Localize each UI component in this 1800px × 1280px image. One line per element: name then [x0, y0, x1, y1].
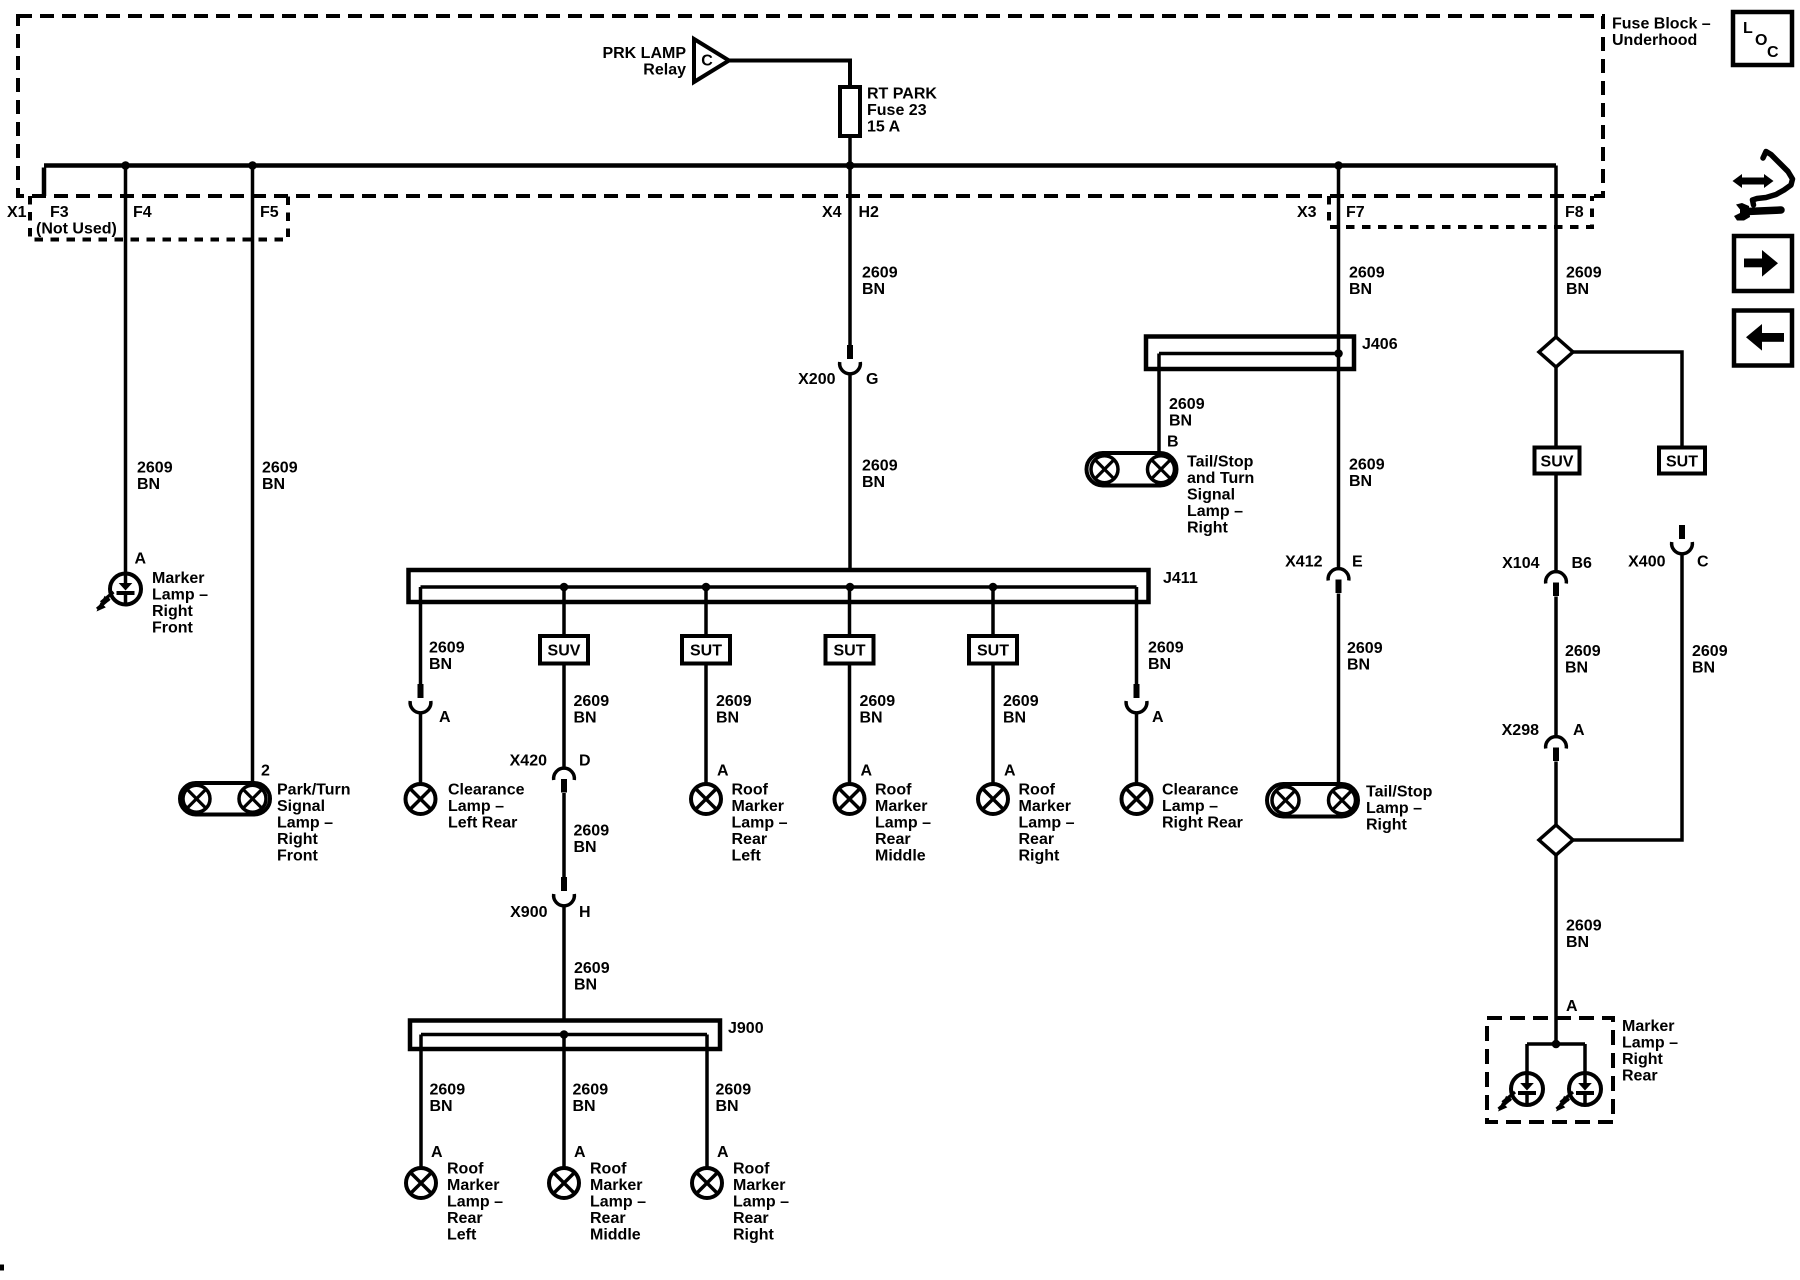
- svg-text:2609: 2609: [1347, 640, 1383, 657]
- svg-text:Fuse 23: Fuse 23: [867, 102, 927, 119]
- svg-text:Rear: Rear: [875, 831, 911, 848]
- wire label 2609 BN (F7 lower): [1347, 640, 1383, 674]
- svg-text:Lamp –: Lamp –: [875, 815, 931, 832]
- svg-text:X104: X104: [1502, 555, 1539, 572]
- splice pack J406: [1146, 337, 1354, 370]
- junction J411-SUT1: [702, 583, 711, 592]
- wire diamond to marker lamp RR: [1554, 855, 1558, 1044]
- svg-text:J900: J900: [728, 1020, 764, 1037]
- svg-text:A: A: [861, 763, 873, 780]
- svg-text:F3: F3: [50, 204, 69, 221]
- svg-text:Marker: Marker: [732, 798, 784, 815]
- svg-text:Lamp –: Lamp –: [448, 798, 504, 815]
- svg-text:PRK LAMP: PRK LAMP: [602, 45, 686, 62]
- fuse RT PARK Fuse 23 15A: [840, 86, 937, 137]
- junction J900 feed: [560, 1030, 569, 1039]
- svg-text:X400: X400: [1628, 554, 1665, 571]
- svg-text:Relay: Relay: [643, 62, 686, 79]
- wire J411 to SUT box (right): [991, 587, 995, 636]
- left arrow box: [1734, 311, 1792, 366]
- wire J411 right drop: [1135, 587, 1139, 684]
- wire J406 left drop: [1157, 354, 1161, 454]
- wire J411 to SUT box (left): [704, 587, 708, 636]
- svg-text:2609: 2609: [862, 265, 898, 282]
- wire label 2609 BN (X104 lower): [1565, 643, 1601, 677]
- connector X200 pin G: [840, 345, 861, 374]
- option box SUT (middle): [826, 636, 874, 664]
- svg-text:Left Rear: Left Rear: [448, 815, 517, 832]
- svg-text:and Turn: and Turn: [1187, 470, 1254, 487]
- svg-text:Lamp –: Lamp –: [1019, 815, 1075, 832]
- svg-text:X4: X4: [822, 204, 842, 221]
- wire label 2609 BN (F7 upper): [1349, 265, 1385, 299]
- svg-text:2609: 2609: [262, 460, 298, 477]
- option box SUT (left): [682, 636, 730, 664]
- wire F4 branch: [124, 166, 128, 573]
- wire SUV to X104: [1554, 474, 1558, 571]
- fuse block label: [1612, 16, 1711, 50]
- tail/stop lamp right: [1267, 784, 1358, 817]
- label marker lamp right front: [152, 570, 208, 637]
- svg-text:2609: 2609: [1566, 918, 1602, 935]
- svg-text:BN: BN: [716, 710, 739, 727]
- svg-text:BN: BN: [262, 476, 285, 493]
- svg-text:Underhood: Underhood: [1612, 32, 1697, 49]
- svg-text:BN: BN: [574, 710, 597, 727]
- svg-text:Left: Left: [447, 1227, 477, 1244]
- svg-text:BN: BN: [1565, 660, 1588, 677]
- connector X420 pin D: [554, 768, 575, 792]
- junction F4: [121, 161, 130, 170]
- svg-text:Middle: Middle: [875, 848, 926, 865]
- label clearance lamp left rear: [448, 782, 525, 832]
- svg-text:Marker: Marker: [733, 1177, 785, 1194]
- svg-text:A: A: [717, 1144, 729, 1161]
- svg-text:2609: 2609: [716, 1082, 752, 1099]
- roof marker lamp rear right: [978, 784, 1008, 814]
- marker lamp RR LED left: [1498, 1073, 1543, 1112]
- wire X420 to X900: [562, 793, 566, 877]
- svg-text:Front: Front: [277, 848, 319, 865]
- wire X900 to J900: [562, 907, 566, 1021]
- svg-text:Clearance: Clearance: [448, 782, 525, 799]
- svg-text:(Not Used): (Not Used): [36, 221, 117, 238]
- svg-text:X298: X298: [1502, 722, 1539, 739]
- svg-text:Roof: Roof: [1019, 782, 1056, 799]
- svg-text:Roof: Roof: [447, 1161, 484, 1178]
- junction J411-SUV: [560, 583, 569, 592]
- svg-text:Front: Front: [152, 620, 194, 637]
- connector X412 pin E: [1328, 569, 1349, 593]
- svg-text:A: A: [431, 1144, 443, 1161]
- svg-text:BN: BN: [862, 281, 885, 298]
- wire F7 branch: [1337, 166, 1341, 568]
- svg-text:BN: BN: [430, 1098, 453, 1115]
- fuse block underhood dashed border: [18, 16, 1603, 196]
- svg-text:Rear: Rear: [733, 1210, 769, 1227]
- svg-text:2609: 2609: [1169, 396, 1205, 413]
- svg-text:2: 2: [261, 763, 270, 780]
- page mark: [0, 1265, 4, 1271]
- wire X412 to tail lamp: [1337, 594, 1341, 785]
- wire label 2609 BN (X420 lower): [574, 823, 610, 857]
- svg-text:X412: X412: [1285, 554, 1322, 571]
- svg-text:BN: BN: [574, 977, 597, 994]
- svg-text:Signal: Signal: [277, 798, 325, 815]
- wire label 2609 BN (F8 lower): [1566, 918, 1602, 952]
- svg-text:2609: 2609: [862, 458, 898, 475]
- svg-text:Lamp –: Lamp –: [733, 1194, 789, 1211]
- svg-text:RT PARK: RT PARK: [867, 86, 937, 103]
- svg-text:Fuse Block –: Fuse Block –: [1612, 16, 1711, 33]
- svg-text:L: L: [1743, 20, 1753, 37]
- svg-text:A: A: [1152, 709, 1164, 726]
- svg-text:Roof: Roof: [733, 1161, 770, 1178]
- svg-text:2609: 2609: [1003, 693, 1039, 710]
- wire J900 drop Right: [705, 1035, 709, 1169]
- svg-text:SUV: SUV: [548, 643, 581, 660]
- svg-text:Marker: Marker: [1019, 798, 1071, 815]
- svg-text:Lamp –: Lamp –: [1187, 503, 1243, 520]
- junction J411 feed: [846, 583, 855, 592]
- roof marker lamp rear middle: [549, 1168, 579, 1198]
- svg-text:Signal: Signal: [1187, 487, 1235, 504]
- option box SUT (right): [1659, 448, 1705, 474]
- svg-text:B6: B6: [1572, 555, 1593, 572]
- svg-text:C: C: [701, 53, 713, 70]
- svg-text:BN: BN: [1169, 413, 1192, 430]
- svg-text:Rear: Rear: [447, 1210, 483, 1227]
- svg-text:Marker: Marker: [875, 798, 927, 815]
- svg-text:X1: X1: [7, 204, 27, 221]
- label roof marker lamp rear left: [732, 782, 788, 865]
- tail/stop and turn signal lamp right: [1087, 453, 1177, 486]
- svg-text:Lamp –: Lamp –: [1622, 1035, 1678, 1052]
- svg-text:2609: 2609: [716, 693, 752, 710]
- svg-text:2609: 2609: [137, 460, 173, 477]
- svg-text:F7: F7: [1346, 204, 1365, 221]
- svg-text:Middle: Middle: [590, 1227, 641, 1244]
- relay PRK LAMP output C: [602, 39, 729, 82]
- svg-text:Right: Right: [152, 603, 194, 620]
- junction F5: [248, 161, 257, 170]
- junction X4: [846, 161, 855, 170]
- svg-text:Lamp –: Lamp –: [732, 815, 788, 832]
- inline connector pin A (left rear): [410, 684, 431, 713]
- junction F7: [1334, 161, 1343, 170]
- svg-text:B: B: [1167, 434, 1179, 451]
- svg-text:Clearance: Clearance: [1162, 782, 1239, 799]
- wire X104 to X298: [1554, 597, 1558, 736]
- svg-text:Marker: Marker: [590, 1177, 642, 1194]
- svg-text:Lamp –: Lamp –: [590, 1194, 646, 1211]
- svg-text:BN: BN: [1692, 660, 1715, 677]
- svg-text:Roof: Roof: [875, 782, 912, 799]
- svg-text:G: G: [866, 371, 878, 388]
- clearance lamp left rear: [406, 784, 436, 814]
- svg-text:Right Rear: Right Rear: [1162, 815, 1243, 832]
- wire to clearance lamp LR: [419, 714, 423, 784]
- marker lamp right front (LED): [97, 574, 142, 612]
- label roof marker lamp rear left: [447, 1161, 503, 1244]
- svg-text:X200: X200: [798, 371, 835, 388]
- wire label 2609 BN (X200 lower): [862, 458, 898, 492]
- wire label 2609 BN (F4): [137, 460, 173, 494]
- svg-text:E: E: [1352, 554, 1363, 571]
- svg-text:SUT: SUT: [977, 643, 1009, 660]
- label park/turn signal lamp right front: [277, 782, 351, 865]
- connector X1 dotted box: [30, 196, 288, 240]
- option box SUV: [540, 636, 588, 664]
- splice pack J411: [409, 570, 1149, 602]
- wire X4 to X200: [848, 166, 852, 346]
- svg-text:Lamp –: Lamp –: [152, 587, 208, 604]
- label marker lamp right rear: [1622, 1018, 1678, 1085]
- marker lamp RR LED right: [1556, 1073, 1601, 1112]
- svg-text:H2: H2: [859, 204, 880, 221]
- svg-text:Rear: Rear: [590, 1210, 626, 1227]
- wire J411 to SUV box: [562, 587, 566, 636]
- svg-text:BN: BN: [1566, 281, 1589, 298]
- svg-text:Rear: Rear: [732, 831, 768, 848]
- svg-text:BN: BN: [1347, 657, 1370, 674]
- svg-text:BN: BN: [1566, 934, 1589, 951]
- roof marker lamp rear left: [406, 1168, 436, 1198]
- connector X104 pin B6: [1546, 572, 1567, 596]
- svg-text:A: A: [574, 1144, 586, 1161]
- branch diamond upper: [1539, 337, 1573, 367]
- svg-text:BN: BN: [137, 476, 160, 493]
- svg-text:Lamp –: Lamp –: [1162, 798, 1218, 815]
- inline connector pin A (right rear): [1126, 684, 1147, 713]
- jump/loc icon: [1733, 152, 1793, 221]
- svg-text:Marker: Marker: [447, 1177, 499, 1194]
- svg-text:Lamp –: Lamp –: [447, 1194, 503, 1211]
- label roof marker lamp rear middle: [590, 1161, 646, 1244]
- wire label 2609 BN (SUT left): [716, 693, 752, 727]
- svg-text:SUT: SUT: [690, 643, 722, 660]
- svg-text:Park/Turn: Park/Turn: [277, 782, 351, 799]
- label tail/stop and turn signal lamp right: [1187, 454, 1254, 537]
- svg-text:Tail/Stop: Tail/Stop: [1366, 784, 1433, 801]
- svg-text:Rear: Rear: [1019, 831, 1055, 848]
- svg-text:Lamp –: Lamp –: [277, 815, 333, 832]
- svg-text:J406: J406: [1362, 336, 1398, 353]
- svg-text:Lamp –: Lamp –: [1366, 800, 1422, 817]
- roof marker lamp rear middle: [835, 784, 865, 814]
- svg-text:2609: 2609: [1566, 265, 1602, 282]
- svg-text:Right: Right: [1187, 520, 1229, 537]
- junction J406: [1334, 349, 1343, 358]
- label tail/stop lamp right: [1366, 784, 1433, 834]
- option box SUT (right): [969, 636, 1017, 664]
- wire X400 to diamond: [1573, 555, 1682, 840]
- svg-text:2609: 2609: [429, 640, 465, 657]
- junction in lamp: [1552, 1040, 1561, 1049]
- connector X900 pin H: [554, 877, 575, 906]
- svg-text:A: A: [717, 763, 729, 780]
- svg-text:Left: Left: [732, 848, 762, 865]
- svg-text:Right: Right: [1019, 848, 1061, 865]
- svg-text:D: D: [579, 753, 591, 770]
- svg-text:F8: F8: [1565, 204, 1584, 221]
- label roof marker lamp rear right: [733, 1161, 789, 1244]
- svg-text:X3: X3: [1297, 204, 1317, 221]
- svg-text:Rear: Rear: [1622, 1068, 1658, 1085]
- wire J411 to SUT box (middle): [848, 587, 852, 636]
- wire label 2609 BN (X4 upper): [862, 265, 898, 299]
- svg-text:15 A: 15 A: [867, 119, 901, 136]
- wire label 2609 BN (J900 Middle): [573, 1082, 609, 1116]
- connector X400 pin C: [1672, 525, 1693, 554]
- fuse position F3: [36, 204, 117, 238]
- svg-text:2609: 2609: [430, 1082, 466, 1099]
- svg-text:BN: BN: [1349, 281, 1372, 298]
- marker lamp right rear dashed box: [1487, 1018, 1613, 1122]
- option box SUV (right): [1535, 448, 1580, 474]
- roof marker lamp rear right: [692, 1168, 722, 1198]
- wire T-split in lamp: [1527, 1044, 1585, 1073]
- svg-text:Right: Right: [733, 1227, 775, 1244]
- svg-text:O: O: [1755, 32, 1767, 49]
- svg-text:Roof: Roof: [732, 782, 769, 799]
- label clearance lamp right rear: [1162, 782, 1243, 832]
- svg-text:A: A: [1004, 763, 1016, 780]
- svg-text:H: H: [579, 904, 591, 921]
- wire X298 to diamond: [1554, 762, 1558, 826]
- wire label 2609 BN (SUV upper): [574, 693, 610, 727]
- svg-text:BN: BN: [573, 1098, 596, 1115]
- svg-text:F5: F5: [260, 204, 279, 221]
- wire label 2609 BN (J900 Right): [716, 1082, 752, 1116]
- splice pack J900: [410, 1021, 720, 1050]
- svg-text:SUT: SUT: [1666, 454, 1698, 471]
- svg-text:F4: F4: [133, 204, 152, 221]
- svg-text:Right: Right: [1366, 817, 1408, 834]
- wire SUT to lamp (middle): [848, 664, 852, 785]
- svg-text:Tail/Stop: Tail/Stop: [1187, 454, 1254, 471]
- svg-text:BN: BN: [1003, 710, 1026, 727]
- wire label 2609 BN (J406 drop): [1169, 396, 1205, 430]
- wire SUT to lamp (left): [704, 664, 708, 785]
- wire label 2609 BN (F8 upper): [1566, 265, 1602, 299]
- label roof marker lamp rear right: [1019, 782, 1075, 865]
- LOC box: [1733, 12, 1792, 65]
- wire label 2609 BN (SUT middle): [860, 693, 896, 727]
- svg-text:2609: 2609: [574, 693, 610, 710]
- bus wire: [44, 166, 1556, 197]
- wire X200 to J411: [848, 375, 852, 570]
- wire F8 branch: [1554, 166, 1558, 338]
- svg-text:BN: BN: [1148, 656, 1171, 673]
- wire diamond to SUV: [1554, 367, 1558, 448]
- svg-text:BN: BN: [1349, 473, 1372, 490]
- wire label 2609 BN (F5): [262, 460, 298, 494]
- svg-text:X900: X900: [510, 904, 547, 921]
- wire SUT to lamp (right): [991, 664, 995, 785]
- wire to clearance lamp RR: [1135, 714, 1139, 784]
- junction J411-SUT3: [989, 583, 998, 592]
- svg-text:SUV: SUV: [1541, 454, 1574, 471]
- right arrow box: [1734, 236, 1792, 291]
- svg-text:BN: BN: [574, 839, 597, 856]
- wire label 2609 BN (X900 lower): [574, 960, 610, 994]
- svg-text:Right: Right: [277, 831, 319, 848]
- svg-text:A: A: [439, 709, 451, 726]
- wire J900 drop Middle: [562, 1035, 566, 1169]
- wire J411 left drop: [419, 587, 423, 684]
- label roof marker lamp rear middle: [875, 782, 931, 865]
- wire label 2609 BN (SUT right): [1003, 693, 1039, 727]
- svg-text:Marker: Marker: [152, 570, 204, 587]
- svg-text:A: A: [1566, 998, 1578, 1015]
- svg-text:2609: 2609: [1148, 640, 1184, 657]
- svg-text:J411: J411: [1163, 570, 1198, 587]
- branch diamond lower: [1539, 825, 1573, 855]
- svg-text:A: A: [1573, 722, 1585, 739]
- svg-text:A: A: [135, 551, 147, 568]
- svg-text:Marker: Marker: [1622, 1018, 1674, 1035]
- svg-text:2609: 2609: [1349, 265, 1385, 282]
- connector X3 dotted box: [1329, 196, 1592, 227]
- wire F5 branch: [251, 166, 255, 784]
- svg-text:C: C: [1767, 44, 1779, 61]
- wire J900 drop Left: [419, 1035, 423, 1169]
- wire label 2609 BN (right drop): [1148, 640, 1184, 674]
- park/turn signal lamp right front: [180, 783, 270, 815]
- svg-text:Right: Right: [1622, 1051, 1664, 1068]
- wire label 2609 BN (left drop): [429, 640, 465, 674]
- svg-text:2609: 2609: [860, 693, 896, 710]
- svg-text:2609: 2609: [1565, 643, 1601, 660]
- svg-text:Roof: Roof: [590, 1161, 627, 1178]
- wire relay to fuse: [729, 61, 850, 88]
- wire diamond to SUT branch: [1573, 352, 1682, 448]
- connector X298 pin A: [1546, 737, 1567, 761]
- svg-text:BN: BN: [429, 656, 452, 673]
- svg-text:SUT: SUT: [834, 643, 866, 660]
- wire fuse to bus: [848, 136, 852, 166]
- svg-text:2609: 2609: [1692, 643, 1728, 660]
- wire label 2609 BN (J900 Left): [430, 1082, 466, 1116]
- svg-text:2609: 2609: [574, 823, 610, 840]
- svg-text:2609: 2609: [573, 1082, 609, 1099]
- wire label 2609 BN (F7 mid): [1349, 457, 1385, 491]
- svg-text:BN: BN: [716, 1098, 739, 1115]
- svg-text:2609: 2609: [574, 960, 610, 977]
- clearance lamp right rear: [1122, 784, 1152, 814]
- roof marker lamp rear left: [691, 784, 721, 814]
- svg-text:C: C: [1697, 554, 1709, 571]
- wire SUV to X420: [562, 664, 566, 767]
- svg-text:BN: BN: [862, 474, 885, 491]
- svg-text:BN: BN: [860, 710, 883, 727]
- wire label 2609 BN (SUT right): [1692, 643, 1728, 677]
- svg-text:X420: X420: [510, 753, 547, 770]
- svg-text:2609: 2609: [1349, 457, 1385, 474]
